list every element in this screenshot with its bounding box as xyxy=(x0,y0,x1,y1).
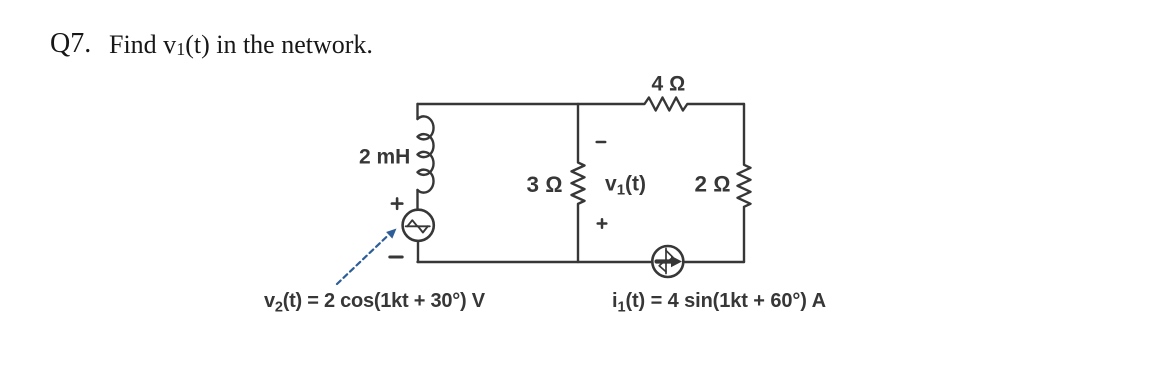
svg-text:4 Ω: 4 Ω xyxy=(652,73,686,96)
svg-text:3 Ω: 3 Ω xyxy=(527,172,563,197)
svg-text:2 Ω: 2 Ω xyxy=(695,172,731,197)
svg-text:v1(t): v1(t) xyxy=(605,173,646,199)
svg-text:2 mH: 2 mH xyxy=(359,146,410,169)
svg-text:i1(t) = 4 sin(1kt + 60°) A: i1(t) = 4 sin(1kt + 60°) A xyxy=(612,290,826,316)
svg-text:v2(t) = 2 cos(1kt + 30°) V: v2(t) = 2 cos(1kt + 30°) V xyxy=(264,290,486,316)
